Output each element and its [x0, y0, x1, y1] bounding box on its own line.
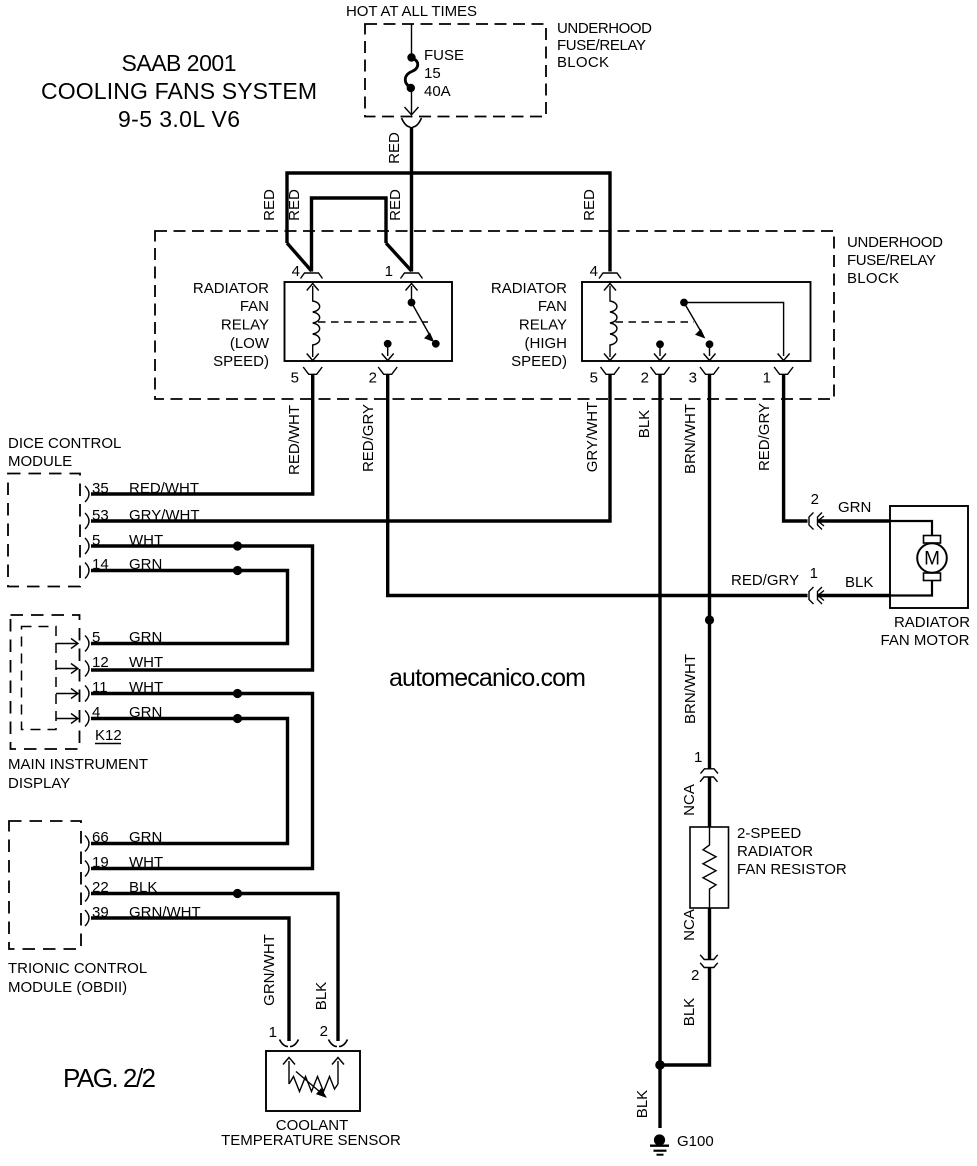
- resistor connector 2 symbol: [700, 955, 718, 968]
- svg-text:FUSE: FUSE: [424, 47, 464, 64]
- wire BLK from high relay pin 2 down to ground junction: [658, 374, 661, 1065]
- svg-text:RED/GRY: RED/GRY: [731, 572, 799, 589]
- TRIONIC pin 19 connector: [85, 861, 89, 877]
- svg-text:RADIATOR: RADIATOR: [894, 614, 970, 631]
- arrow down at fuse box edge: [405, 107, 419, 115]
- wire RED/GRY from high relay pin 1 to motor connector 2: [784, 374, 808, 521]
- svg-text:RADIATOR: RADIATOR: [737, 843, 813, 860]
- svg-text:1: 1: [269, 1024, 277, 1041]
- svg-text:RED: RED: [286, 189, 303, 221]
- switch arm arrowhead (high): [696, 330, 705, 338]
- MAIN pin 12 arrow: [56, 668, 77, 670]
- splice dot on GRN (MAIN 4): [233, 714, 242, 723]
- svg-text:1: 1: [810, 565, 818, 582]
- motor internal wire top: [890, 521, 932, 536]
- svg-text:40A: 40A: [424, 83, 451, 100]
- splice dot on BRN/WHT: [705, 615, 714, 624]
- svg-text:BLK: BLK: [636, 410, 653, 438]
- svg-text:BLOCK: BLOCK: [847, 270, 899, 287]
- motor brush top: [924, 536, 941, 544]
- svg-text:53: 53: [92, 507, 109, 524]
- svg-text:DICE CONTROL: DICE CONTROL: [8, 435, 121, 452]
- DICE dashed box: [8, 474, 80, 587]
- relay coil (low): [313, 286, 320, 357]
- wire BLK to ground: [658, 1065, 661, 1128]
- svg-text:RED/GRY: RED/GRY: [756, 403, 773, 471]
- TRIONIC dashed box: [9, 821, 81, 949]
- svg-text:1: 1: [694, 749, 702, 766]
- pin 1 connector (high): [774, 367, 793, 374]
- svg-text:RADIATOR: RADIATOR: [491, 280, 567, 297]
- coil arrow up (low): [307, 284, 319, 291]
- pin 3 connector (high): [700, 367, 719, 374]
- svg-text:19: 19: [92, 854, 109, 871]
- wire GRN from DICE pin 14 to MAIN pin 5: [91, 571, 288, 644]
- svg-text:RELAY: RELAY: [221, 317, 269, 334]
- TRIONIC pin 66 connector: [85, 836, 89, 852]
- svg-text:FAN: FAN: [240, 298, 269, 315]
- module MAIN INSTRUMENT DISPLAY: [8, 615, 163, 792]
- pin 5 connector (high): [601, 367, 620, 374]
- svg-text:RED: RED: [386, 132, 403, 164]
- pin 3 arrow down (high): [704, 354, 716, 361]
- wire WHT from MAIN pin 11 to TRIONIC pin 19: [91, 694, 313, 869]
- svg-text:2: 2: [641, 370, 649, 387]
- junction dot BLK wires: [655, 1060, 665, 1070]
- svg-text:FAN: FAN: [538, 298, 567, 315]
- svg-text:PAG. 2/2: PAG. 2/2: [63, 1063, 156, 1093]
- motor internal wire bottom: [890, 581, 932, 596]
- svg-text:TRIONIC CONTROL: TRIONIC CONTROL: [8, 960, 147, 977]
- svg-text:BRN/WHT: BRN/WHT: [682, 654, 699, 724]
- svg-text:SAAB 2001: SAAB 2001: [122, 50, 237, 76]
- MAIN pin 5 arrow: [56, 643, 77, 645]
- svg-text:2: 2: [811, 491, 819, 508]
- svg-text:G100: G100: [677, 1133, 714, 1150]
- wire BLK into motor: [818, 594, 891, 597]
- svg-text:K12: K12: [95, 727, 122, 744]
- switch arm (low): [412, 303, 431, 337]
- relay coil (high): [610, 286, 617, 357]
- pin 2 connector (low): [378, 367, 397, 374]
- pin 2 arrow down (high): [654, 354, 666, 361]
- svg-text:M: M: [924, 549, 940, 570]
- motor box: [890, 506, 968, 608]
- motor pin 2 inline connector: [809, 513, 822, 530]
- wire diagonal into low relay pin 4: [287, 243, 312, 271]
- svg-text:GRN: GRN: [838, 499, 871, 516]
- svg-text:UNDERHOOD: UNDERHOOD: [847, 234, 943, 251]
- pin 2 arrow down (low): [382, 354, 394, 361]
- sensor pin 2 connector: [329, 1040, 348, 1047]
- svg-text:RED/WHT: RED/WHT: [286, 405, 303, 475]
- svg-text:RELAY: RELAY: [519, 317, 567, 334]
- svg-text:2: 2: [369, 370, 377, 387]
- splice dot on GRN (DICE 14): [233, 566, 242, 575]
- MAIN pin 12 connector: [85, 661, 89, 677]
- DICE pin 5 connector: [85, 538, 89, 554]
- wire GRY/WHT from DICE pin 53 to high relay pin 5: [91, 374, 610, 521]
- svg-text:3: 3: [689, 370, 697, 387]
- wire GRN into motor: [818, 519, 891, 522]
- pin 2 contact dot (high): [656, 340, 664, 348]
- motor brush bottom: [924, 573, 941, 581]
- ground G100: [650, 1133, 714, 1155]
- svg-text:12: 12: [92, 654, 109, 671]
- underhood fuse block dashed box: [365, 24, 546, 117]
- svg-text:5: 5: [92, 629, 100, 646]
- wire bus RED horizontal: [287, 173, 610, 272]
- svg-text:RED: RED: [387, 189, 404, 221]
- wire diagonal into low relay pin 1: [386, 243, 412, 271]
- pin 1 connector (low): [401, 273, 423, 279]
- switch arm (high): [684, 303, 702, 333]
- TRIONIC pin 22 connector: [85, 886, 89, 902]
- svg-text:15: 15: [424, 65, 441, 82]
- wire NCA to resistor: [708, 777, 711, 827]
- splice dot on WHT (DICE 5): [233, 541, 242, 550]
- splice dot on BLK (TRIONIC 22): [233, 889, 242, 898]
- MAIN pin 11 connector: [85, 686, 89, 702]
- module TRIONIC CONTROL MODULE (OBDII): [8, 821, 201, 996]
- switch common arrow up (low): [406, 284, 418, 291]
- svg-text:GRY/WHT: GRY/WHT: [584, 402, 601, 473]
- resistor connector 1 symbol: [700, 769, 718, 782]
- sensor pin 1 connector: [280, 1040, 299, 1047]
- svg-text:4: 4: [292, 263, 300, 280]
- svg-text:DISPLAY: DISPLAY: [8, 775, 70, 792]
- sensor pin 1 arrow up: [288, 1061, 290, 1084]
- DICE pin 53 connector: [85, 513, 89, 529]
- svg-text:4: 4: [590, 263, 598, 280]
- svg-text:SPEED): SPEED): [511, 353, 567, 370]
- MAIN inner dashed box: [22, 627, 57, 730]
- switch arm arrowhead (low): [425, 333, 434, 341]
- svg-text:66: 66: [92, 829, 109, 846]
- pin 2 contact stem (low): [387, 345, 389, 356]
- wire into fuse: [411, 24, 413, 54]
- connector below fuse box: [402, 118, 422, 127]
- wire RED inverted-U to pins 4 and 1: [312, 198, 387, 272]
- MAIN pin 4 arrow: [56, 718, 77, 720]
- wire GRN/WHT from TRIONIC pin 39 to sensor pin 1: [91, 918, 289, 1041]
- underhood fuse/relay block dashed box (main): [155, 231, 834, 399]
- svg-text:BLK: BLK: [845, 574, 873, 591]
- motor pin 1 inline connector: [809, 587, 822, 604]
- wire BLK from TRIONIC pin 22 to sensor pin 2: [91, 894, 338, 1042]
- switch NO contact dot (low): [432, 340, 440, 348]
- relay K1 RADIATOR FAN RELAY (LOW SPEED): [193, 263, 452, 387]
- svg-text:RADIATOR: RADIATOR: [193, 280, 269, 297]
- svg-text:NCA: NCA: [681, 909, 698, 941]
- svg-text:MODULE (OBDII): MODULE (OBDII): [8, 979, 127, 996]
- svg-text:NCA: NCA: [681, 784, 698, 816]
- svg-text:BLK: BLK: [313, 982, 330, 1010]
- DICE pin 35 connector: [85, 486, 89, 502]
- wire RED/WHT from low relay pin 5 to DICE pin 35: [91, 374, 313, 494]
- DICE pin 14 connector: [85, 563, 89, 579]
- svg-text:5: 5: [590, 370, 598, 387]
- svg-text:FUSE/RELAY: FUSE/RELAY: [557, 37, 646, 54]
- pin 2 contact stem (high): [659, 345, 661, 356]
- switch common wire to pin 1 (high): [684, 303, 784, 357]
- resistor R1 2-SPEED RADIATOR FAN RESISTOR: [690, 825, 847, 908]
- pin 1 arrow down (high): [778, 354, 790, 361]
- switch common contact dot (high): [680, 299, 688, 307]
- svg-text:MODULE: MODULE: [8, 453, 72, 470]
- wire RED from fuse to bus and relay pin 1: [410, 127, 413, 272]
- svg-text:(LOW: (LOW: [230, 335, 270, 352]
- coil arrow down (high): [604, 354, 616, 361]
- svg-text:RED/WHT: RED/WHT: [129, 480, 199, 497]
- svg-text:GRN/WHT: GRN/WHT: [261, 934, 278, 1006]
- svg-text:RED: RED: [261, 189, 278, 221]
- svg-text:RED: RED: [581, 189, 598, 221]
- svg-text:BLK: BLK: [681, 998, 698, 1026]
- svg-text:FUSE/RELAY: FUSE/RELAY: [847, 252, 936, 269]
- svg-text:GRY/WHT: GRY/WHT: [129, 507, 200, 524]
- MAIN pin 4 connector: [85, 711, 89, 727]
- svg-text:1: 1: [763, 370, 771, 387]
- svg-text:2-SPEED: 2-SPEED: [737, 825, 801, 842]
- wire GRN from MAIN pin 4 to TRIONIC pin 66: [91, 719, 288, 844]
- pin 2 contact dot (low): [384, 340, 392, 348]
- relay low box: [285, 282, 453, 361]
- splice dot on WHT (MAIN 11): [233, 689, 242, 698]
- thermistor zigzag: [289, 1077, 338, 1092]
- svg-text:(HIGH: (HIGH: [525, 335, 568, 352]
- TRIONIC pin 39 connector: [85, 910, 89, 926]
- svg-text:TEMPERATURE SENSOR: TEMPERATURE SENSOR: [221, 1132, 401, 1149]
- sensor box: [266, 1051, 360, 1111]
- wire from resistor to connector 2: [708, 908, 711, 959]
- wire BLK from resistor to ground junction: [660, 968, 710, 1066]
- motor circle M: [917, 543, 947, 573]
- svg-text:BLOCK: BLOCK: [557, 54, 609, 71]
- svg-text:MAIN INSTRUMENT: MAIN INSTRUMENT: [8, 756, 148, 773]
- wire below fuse: [411, 88, 413, 114]
- relay high box: [582, 282, 811, 361]
- svg-text:WHT: WHT: [129, 854, 163, 871]
- svg-text:WHT: WHT: [129, 654, 163, 671]
- wire WHT from DICE pin 5 to MAIN pin 12: [91, 546, 313, 670]
- pin 2 connector (high): [651, 367, 670, 374]
- svg-text:2: 2: [320, 1023, 328, 1040]
- wire RED/GRY from low relay pin 2 to motor connector: [388, 374, 808, 596]
- sensor pin 2 arrow up: [337, 1061, 339, 1084]
- motor M1 RADIATOR FAN MOTOR: [881, 506, 971, 649]
- svg-text:GRN: GRN: [129, 629, 162, 646]
- resistor box: [690, 827, 729, 908]
- relay K2 RADIATOR FAN RELAY (HIGH SPEED): [491, 263, 811, 387]
- switch NO contact dot (high): [706, 340, 714, 348]
- pin 4 connector (low): [301, 273, 323, 279]
- MAIN pin 11 arrow: [56, 693, 77, 695]
- module DICE CONTROL MODULE: [8, 435, 200, 587]
- pin 3 contact stem (high): [709, 345, 711, 356]
- switch common contact dot (low): [408, 299, 416, 307]
- dashed actuator link (high): [616, 321, 695, 323]
- svg-text:GRN: GRN: [129, 829, 162, 846]
- wire BRN/WHT from high relay pin 3 to resistor connector 1: [708, 374, 711, 769]
- MAIN outer dashed box: [11, 615, 80, 749]
- svg-text:5: 5: [291, 370, 299, 387]
- svg-text:BLK: BLK: [634, 1090, 651, 1118]
- svg-text:FAN RESISTOR: FAN RESISTOR: [737, 861, 847, 878]
- svg-text:SPEED): SPEED): [213, 353, 269, 370]
- dashed actuator link (low): [318, 321, 428, 323]
- svg-text:COOLING FANS SYSTEM: COOLING FANS SYSTEM: [41, 78, 317, 104]
- coil arrow down (low): [307, 354, 319, 361]
- svg-text:2: 2: [691, 967, 699, 984]
- fuse 15 40A: [405, 53, 417, 92]
- pin 4 connector (high): [599, 273, 621, 279]
- svg-text:BRN/WHT: BRN/WHT: [682, 404, 699, 474]
- svg-text:RED/GRY: RED/GRY: [360, 404, 377, 472]
- svg-text:UNDERHOOD: UNDERHOOD: [557, 20, 652, 37]
- svg-text:35: 35: [92, 480, 109, 497]
- pin 5 connector (low): [303, 367, 322, 374]
- svg-text:automecanico.com: automecanico.com: [389, 664, 586, 692]
- MAIN pin 5 connector: [85, 636, 89, 652]
- svg-text:HOT AT ALL TIMES: HOT AT ALL TIMES: [346, 3, 477, 20]
- sensor B10 COOLANT TEMPERATURE SENSOR: [221, 1051, 401, 1149]
- svg-text:FAN MOTOR: FAN MOTOR: [881, 632, 970, 649]
- switch common stem (low): [411, 286, 413, 300]
- svg-text:9-5 3.0L V6: 9-5 3.0L V6: [118, 106, 240, 132]
- thermistor arrow: [296, 1072, 320, 1093]
- resistor element: [703, 827, 716, 908]
- svg-text:1: 1: [385, 263, 393, 280]
- coil arrow up (high): [604, 284, 616, 291]
